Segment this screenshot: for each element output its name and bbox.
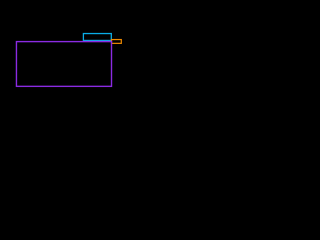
component U2 (cyan outline box) — [83, 34, 111, 41]
resistor R1 (small orange outline box) — [112, 40, 122, 44]
component body U1 (large purple outline box) — [16, 42, 111, 87]
